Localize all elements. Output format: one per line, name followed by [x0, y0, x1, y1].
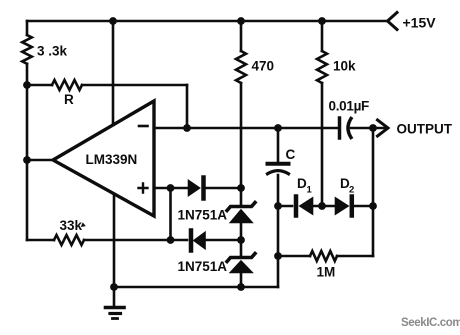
wire C column lower [277, 175, 280, 287]
node junction dot 33k vertical [167, 236, 175, 244]
zener D5 1N751A triangle [231, 210, 253, 223]
wire lower diode to zener column [205, 239, 241, 242]
svg-text:1M: 1M [317, 265, 336, 280]
capacitor C1 top plate [268, 162, 289, 166]
diode D3 steering upper [201, 178, 206, 199]
node junction dot lower diode zener [237, 236, 245, 244]
svg-text:+15V: +15V [403, 15, 437, 31]
wire R down to inverting node [186, 85, 189, 128]
resistor R2 470 [236, 51, 246, 83]
node junction dot C top [274, 124, 282, 132]
node junction dot D1 left [274, 202, 282, 210]
diode D2 cathode bar [350, 197, 355, 216]
node junction dot R left [23, 81, 31, 89]
svg-text:1N751A: 1N751A [178, 259, 228, 274]
minus input symbol [139, 125, 148, 128]
capacitor C1 bottom curved plate [268, 171, 289, 174]
svg-text:R: R [64, 92, 74, 107]
diode D4 steering lower [189, 231, 194, 251]
diode D1 cathode bar [294, 197, 299, 216]
wire left rail upper segment [26, 21, 29, 35]
plus input symbol [139, 184, 148, 193]
wire R row right [82, 84, 187, 87]
op-amp U1 LM339N triangle [53, 101, 154, 216]
node junction dot 10k rail [318, 17, 326, 25]
node junction dot D2 right [369, 202, 377, 210]
zener D6 1N751A triangle [231, 261, 253, 273]
diode D1 triangle [300, 198, 313, 214]
svg-text:1N751A: 1N751A [178, 208, 228, 223]
node junction dot 470 rail [237, 17, 245, 25]
+15V supply terminal chevron [388, 13, 398, 30]
svg-text:D: D [297, 176, 307, 191]
wire R row left [27, 84, 52, 87]
node junction dot zener bottom rail [237, 283, 245, 291]
svg-text:2: 2 [349, 185, 354, 196]
resistor R [52, 80, 82, 90]
svg-text:SeekIC.com: SeekIC.com [401, 317, 460, 329]
wire 10k column down to diode node [321, 83, 324, 206]
svg-text:LM339N: LM339N [86, 152, 138, 167]
wire ground pin of comparator [113, 196, 116, 287]
svg-text:0.01µF: 0.01µF [329, 99, 370, 114]
svg-text:33k: 33k [60, 218, 83, 233]
wire 10k column top [321, 21, 324, 51]
node junction dot apex left rail [23, 156, 31, 164]
ground symbol bars [106, 306, 125, 310]
svg-text:10k: 10k [333, 59, 356, 74]
node junction dot D1 D2 middle [318, 202, 326, 210]
capacitor C2 0.01uF left plate [338, 118, 342, 138]
svg-text:470: 470 [252, 59, 275, 74]
OUTPUT terminal arrow [378, 120, 389, 136]
wire output column vertical [372, 128, 375, 256]
wire noninverting input row [154, 187, 190, 190]
resistor R5 1M [310, 251, 337, 261]
wire upper diode to zener column [206, 187, 242, 190]
node junction dot output [369, 124, 377, 132]
node junction dot plus input [167, 184, 175, 192]
node junction dot inverting input [183, 124, 191, 132]
wire 1M row right [337, 255, 373, 258]
zener D5 1N751A bar [227, 203, 255, 211]
wire top +15V rail [27, 20, 388, 23]
svg-text:OUTPUT: OUTPUT [397, 122, 453, 137]
wire zener column bottom [240, 273, 243, 287]
capacitor C2 0.01uF right curved plate [348, 119, 351, 138]
node junction dot V+ rail [109, 17, 117, 25]
wire 470 column top [240, 21, 243, 51]
wire 470 column middle [240, 83, 243, 204]
wire C column upper [277, 128, 280, 162]
wire 1M row left [278, 255, 310, 258]
wire inverting input row [154, 127, 339, 130]
wire zener column between [240, 222, 243, 256]
wire from plus node down to 33k row [169, 188, 172, 240]
wire left rail lower segment [26, 64, 29, 240]
wire output apex to left rail [27, 159, 53, 162]
diode D1 wire left [278, 205, 292, 208]
resistor R3 33k [54, 235, 84, 245]
wire bottom ground rail [114, 286, 278, 289]
resistor R4 10k [317, 51, 327, 83]
wire D1 to middle node [313, 205, 337, 208]
wire 33k row middle [84, 239, 187, 242]
node junction dot upper diode zener [237, 184, 245, 192]
wire V+ pin from top rail [112, 21, 115, 125]
label 33k tick mark [81, 222, 86, 227]
node junction dot 1M left [274, 252, 282, 260]
ground symbol stub [113, 287, 116, 306]
wire D2 to output column [354, 205, 373, 208]
zener D6 1N751A bar [227, 254, 255, 262]
diode D2 triangle [336, 198, 349, 214]
svg-text:3 .3k: 3 .3k [37, 44, 68, 59]
wire output coupling [351, 127, 385, 130]
node junction dot ground [110, 283, 118, 291]
svg-text:1: 1 [307, 185, 313, 196]
svg-text:C: C [286, 147, 296, 162]
resistor R1 3.3k [22, 35, 32, 64]
wire 33k row from left rail [27, 239, 54, 242]
